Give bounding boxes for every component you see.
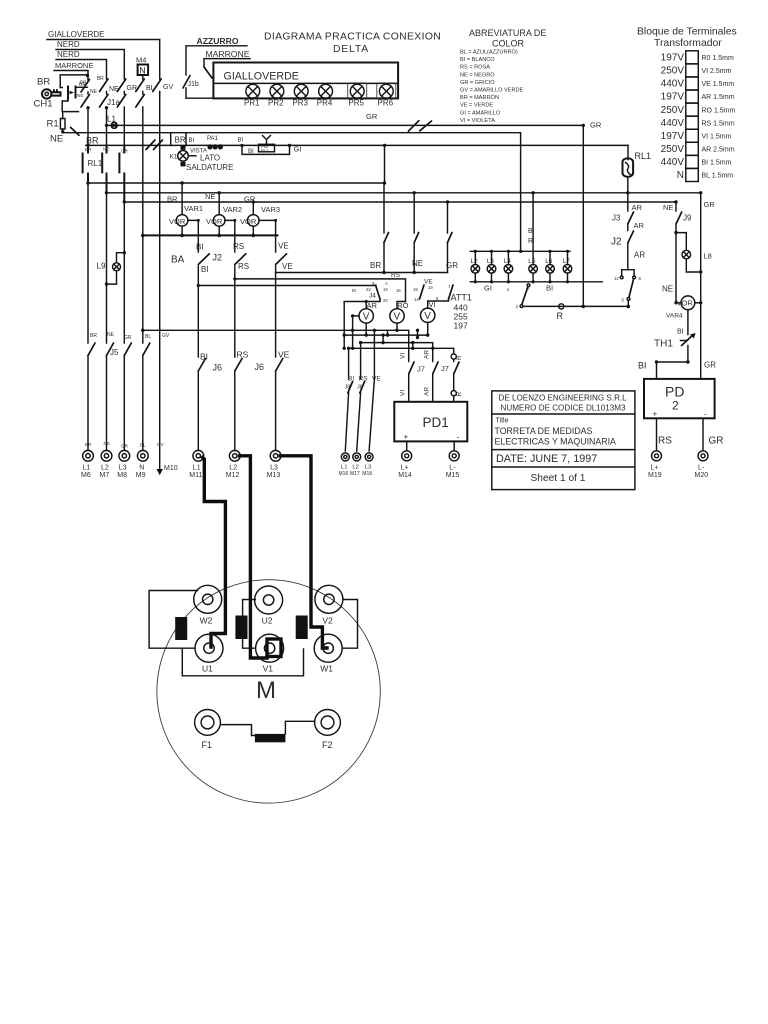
lamp L3: [487, 251, 496, 281]
node NE label under R1: [50, 134, 63, 145]
svg-text:ATT1: ATT1: [451, 293, 472, 303]
svg-text:Sheet 1 of 1: Sheet 1 of 1: [531, 473, 586, 484]
motor terminal V2: [315, 585, 343, 625]
terminal F2: [315, 710, 341, 751]
svg-text:L3: L3: [365, 465, 371, 471]
terminal M7: [100, 450, 112, 479]
wire link row VE lower with label: [197, 279, 434, 288]
svg-text:L2: L2: [352, 465, 358, 471]
label M motor: [256, 677, 276, 704]
svg-text:BI: BI: [546, 284, 553, 293]
svg-text:BR: BR: [167, 195, 178, 204]
switch J6 BI: [198, 352, 222, 451]
svg-text:AR: AR: [634, 221, 645, 230]
wire MARRONE 2: [204, 59, 250, 78]
svg-text:BI 1.5mm: BI 1.5mm: [702, 160, 732, 167]
svg-text:RL1: RL1: [635, 151, 652, 161]
svg-text:GR: GR: [704, 200, 716, 209]
motor terminal W1: [314, 634, 342, 673]
link wire left box: [149, 591, 197, 649]
svg-text:NE: NE: [50, 134, 63, 145]
svg-text:BA: BA: [171, 255, 185, 266]
terminal M20: [695, 451, 709, 479]
svg-text:VAR2: VAR2: [223, 205, 242, 214]
svg-text:SALDATURE: SALDATURE: [186, 163, 233, 172]
svg-text:L2: L2: [229, 465, 237, 472]
link bar U2-V1: [235, 616, 247, 640]
voltmeter U3 VI: [421, 300, 436, 335]
link wire mid box: [243, 600, 256, 649]
svg-text:NE: NE: [662, 285, 673, 294]
wire GV column down: [159, 92, 161, 330]
svg-text:VAR4: VAR4: [666, 313, 683, 320]
svg-text:BI: BI: [196, 243, 204, 252]
svg-text:NERD: NERD: [57, 40, 80, 49]
svg-text:14: 14: [414, 297, 419, 302]
svg-text:M4: M4: [136, 56, 146, 65]
svg-text:N: N: [677, 170, 684, 181]
svg-text:GR: GR: [590, 121, 602, 130]
svg-text:RO 1.5mm: RO 1.5mm: [702, 107, 736, 114]
svg-text:VI: VI: [400, 390, 407, 396]
bus BR at y183: [86, 145, 386, 184]
wire VE J8 column: [373, 330, 375, 379]
svg-text:19: 19: [413, 287, 418, 292]
svg-text:PR3: PR3: [292, 99, 308, 108]
legend ABREVIATURA DE COLOR: [460, 28, 546, 124]
svg-text:M19: M19: [648, 472, 662, 479]
svg-text:F1: F1: [202, 740, 213, 750]
switch J6 VE: [276, 350, 290, 451]
switch J7 VI: [400, 353, 425, 402]
svg-text:PD1: PD1: [423, 415, 449, 430]
svg-text:V: V: [394, 312, 401, 323]
svg-text:GV: GV: [162, 333, 170, 339]
svg-text:440V: 440V: [661, 157, 685, 168]
switch J9: [663, 202, 692, 303]
labels above terminals M6-M10: [85, 441, 165, 449]
svg-text:RS: RS: [359, 376, 369, 383]
svg-text:BI = BLANCO: BI = BLANCO: [460, 57, 495, 63]
relay coil contacts left of BR column: [60, 74, 89, 112]
svg-text:PR2: PR2: [268, 99, 284, 108]
wire meter left branch: [344, 300, 368, 348]
terminal M17: [350, 453, 361, 477]
terminal block wire labels: [702, 55, 736, 180]
svg-text:J6: J6: [255, 362, 265, 372]
label ATT1: [451, 293, 472, 331]
switch J4 selector pins: [352, 281, 451, 303]
svg-text:BR: BR: [370, 261, 381, 270]
svg-text:250V: 250V: [661, 144, 685, 155]
wire mesh line 4: [347, 347, 454, 379]
svg-text:GR: GR: [366, 112, 378, 121]
svg-text:J7: J7: [417, 365, 425, 374]
wire columns J5 to terminals: [88, 330, 160, 462]
wire BR third bus to RL1 fuse: [86, 144, 628, 160]
lamp L7: [563, 251, 572, 281]
svg-text:K1: K1: [170, 154, 178, 161]
svg-text:197: 197: [454, 321, 468, 331]
svg-text:BL = AZUL(AZZURRO): BL = AZUL(AZZURRO): [460, 50, 518, 56]
svg-text:NE = NEGRO: NE = NEGRO: [460, 72, 495, 78]
svg-text:GV = AMARILLO VERDE: GV = AMARILLO VERDE: [460, 88, 524, 94]
wire BR second bus to lamp feed: [63, 133, 521, 252]
bus labels BR NE GR: [167, 192, 256, 204]
svg-text:VI = VIOLETA: VI = VIOLETA: [460, 118, 495, 124]
svg-text:TORRETA DE MEDIDAS: TORRETA DE MEDIDAS: [495, 426, 593, 436]
wire AZZURRO: [186, 46, 247, 75]
switch J1b: [183, 76, 213, 99]
terminal block cells: [686, 51, 699, 182]
terminal M8: [117, 450, 129, 479]
node GIALLOVERDE feed label: [48, 30, 104, 39]
wire mesh stubs: [343, 314, 420, 350]
svg-text:GR: GR: [709, 436, 724, 447]
terminal F1: [195, 710, 221, 751]
svg-text:M15: M15: [446, 472, 460, 479]
motor terminal W2: [194, 585, 222, 625]
svg-text:GV: GV: [157, 442, 165, 447]
switch meter VI: [428, 285, 453, 308]
svg-text:NE: NE: [205, 192, 215, 201]
svg-text:W2: W2: [200, 616, 213, 626]
svg-text:U2: U2: [262, 616, 273, 626]
svg-text:L3: L3: [119, 465, 127, 472]
svg-text:BR: BR: [37, 77, 50, 88]
svg-text:VI 1.5mm: VI 1.5mm: [702, 133, 732, 140]
table Bloque de Terminales Transformador: [637, 27, 737, 50]
wire NERD2 to NE column: [56, 60, 107, 80]
labels BI RS VE J8: [345, 376, 382, 391]
svg-text:PR1: PR1: [244, 99, 260, 108]
svg-text:BR: BR: [85, 442, 92, 447]
lamp L5: [528, 251, 537, 281]
switch J2 pole RS: [213, 242, 250, 357]
svg-text:VE = VERDE: VE = VERDE: [460, 103, 493, 109]
svg-text:DELTA: DELTA: [333, 44, 369, 55]
svg-text:NE: NE: [663, 203, 673, 212]
thermistor TH1: [654, 310, 696, 362]
svg-text:20: 20: [383, 298, 388, 303]
fuse PR5: [350, 84, 364, 98]
svg-text:250V: 250V: [661, 66, 685, 77]
svg-text:L1: L1: [193, 465, 201, 472]
switch GR column row1: [117, 79, 126, 94]
link wire bottom loop: [182, 649, 303, 676]
terminal M18: [362, 453, 373, 477]
svg-text:GR: GR: [704, 361, 716, 370]
svg-text:19: 19: [383, 287, 388, 292]
svg-text:AR 2.5mm: AR 2.5mm: [702, 147, 735, 154]
fuse PR2: [270, 84, 284, 98]
switch trio BR: [370, 183, 389, 273]
svg-text:16: 16: [396, 288, 401, 293]
svg-text:VE: VE: [278, 350, 290, 360]
fuse PR3: [294, 84, 308, 98]
svg-text:VOR: VOR: [677, 299, 694, 308]
voltmeter U2 RO: [390, 301, 409, 330]
svg-text:M17: M17: [350, 471, 360, 477]
svg-text:NE: NE: [104, 441, 110, 446]
terminal block voltage labels: [661, 53, 685, 182]
wire mesh line 2: [343, 333, 430, 336]
svg-text:Transformador: Transformador: [654, 38, 722, 49]
node NERD label 2: [57, 50, 80, 59]
switch J2 pole BI: [171, 243, 209, 358]
lamp K1 welding view: [170, 145, 234, 172]
svg-text:R: R: [456, 392, 463, 397]
svg-text:-: -: [457, 433, 460, 442]
wire mesh line 3: [359, 341, 433, 379]
switch trio NE: [412, 193, 423, 273]
varistor VAR2: [206, 193, 242, 252]
voltmeter U1 AR: [359, 301, 378, 335]
splice beads PA1: [207, 136, 223, 149]
node GR right label: [704, 200, 716, 209]
svg-text:AR: AR: [632, 203, 643, 212]
svg-text:GIALLOVERDE: GIALLOVERDE: [224, 71, 299, 83]
svg-text:AR: AR: [424, 387, 431, 396]
switch GV column row1: [153, 79, 162, 94]
svg-text:M10: M10: [164, 465, 178, 472]
svg-text:440V: 440V: [661, 79, 685, 90]
svg-text:PA1: PA1: [207, 136, 219, 142]
wire B R drop labels: [528, 191, 535, 251]
svg-text:VAR3: VAR3: [261, 205, 280, 214]
switch group J5: [88, 332, 170, 357]
svg-text:NE: NE: [77, 93, 83, 98]
bus GR at y202: [123, 200, 678, 203]
bus lamp bottom GI: [470, 280, 602, 292]
svg-text:COLOR: COLOR: [492, 39, 525, 49]
svg-text:PR4: PR4: [317, 99, 333, 108]
wire GR main top from L1 to right drop: [107, 112, 602, 306]
svg-text:BI: BI: [189, 138, 195, 144]
svg-text:22: 22: [366, 287, 371, 292]
svg-text:GIALLOVERDE: GIALLOVERDE: [48, 30, 104, 39]
svg-text:AR: AR: [634, 251, 645, 260]
varistor VAR1: [169, 183, 203, 252]
fuse PR1: [246, 84, 260, 98]
svg-text:J7: J7: [441, 364, 449, 373]
link bar W2-U1: [175, 617, 187, 640]
svg-text:RS: RS: [658, 436, 672, 447]
lamp L2: [471, 251, 480, 281]
svg-text:W1: W1: [320, 664, 333, 674]
title DIAGRAMA PRACTICA CONEXION DELTA: [264, 32, 441, 56]
svg-text:AR 1.5mm: AR 1.5mm: [702, 94, 735, 101]
svg-text:L2: L2: [101, 465, 109, 472]
svg-text:NE: NE: [90, 89, 98, 95]
svg-text:GI: GI: [484, 284, 492, 293]
wire J8 VE to M18: [369, 379, 374, 451]
fuse holder gray box PR6: [377, 83, 396, 99]
motor terminal U2: [255, 586, 283, 626]
terminal M6: [81, 450, 93, 479]
fuse RL1 oval: [623, 151, 652, 193]
svg-text:M18: M18: [362, 471, 372, 477]
svg-text:R: R: [528, 238, 533, 245]
svg-text:L-: L-: [698, 465, 705, 472]
svg-text:AZZURRO: AZZURRO: [197, 36, 239, 46]
svg-text:12: 12: [614, 276, 619, 281]
wire BR NE GR columns to J5: [88, 183, 143, 343]
svg-text:BR: BR: [86, 136, 99, 146]
wire NE column down: [105, 106, 108, 151]
svg-text:VE: VE: [282, 262, 293, 271]
wire BL column down: [142, 107, 144, 330]
switch row 1 labels NE GR BL GV: [79, 76, 173, 95]
link bar V2-W1: [296, 616, 308, 640]
svg-text:+: +: [653, 410, 658, 419]
svg-text:M12: M12: [226, 472, 240, 479]
title block: [492, 391, 635, 490]
svg-text:GR = GRICIO: GR = GRICIO: [460, 80, 495, 86]
svg-text:M14: M14: [398, 472, 412, 479]
svg-text:Bloque de Terminales: Bloque de Terminales: [637, 27, 737, 38]
switch meter RO: [397, 285, 424, 309]
svg-text:L9: L9: [97, 262, 106, 271]
ground arrow M10: [157, 462, 178, 475]
switch on NE wire from R1: [71, 127, 79, 135]
svg-text:197V: 197V: [661, 92, 685, 103]
svg-text:J3: J3: [612, 214, 621, 223]
svg-text:R1: R1: [47, 119, 59, 130]
switch group J1a row2: [81, 95, 144, 108]
svg-text:MARRONE: MARRONE: [55, 61, 93, 70]
switch BL column row1 under M4: [136, 79, 145, 94]
svg-text:M8: M8: [117, 472, 127, 479]
svg-text:RS: RS: [238, 262, 249, 271]
lamp L6: [545, 251, 554, 281]
switch J2 right: [611, 224, 634, 248]
node AZZURRO label: [197, 36, 239, 46]
svg-text:440V: 440V: [661, 118, 685, 129]
svg-text:RL1: RL1: [88, 159, 103, 168]
svg-text:BI: BI: [638, 361, 647, 371]
svg-text:J9: J9: [683, 214, 692, 223]
svg-text:RL1: RL1: [261, 148, 269, 153]
cable M11 to U1: [203, 458, 226, 648]
svg-text:M9: M9: [136, 472, 146, 479]
switch trio GR: [446, 202, 458, 273]
box GIALLOVERDE fuse row: [213, 63, 398, 99]
fuse PR4: [319, 84, 333, 98]
svg-text:NUMERO DE CODICE DL1013M3: NUMERO DE CODICE DL1013M3: [501, 404, 627, 413]
wire GIALLOVERDE to GV column: [47, 40, 160, 80]
wire BR column down: [86, 106, 89, 151]
svg-text:L+: L+: [651, 465, 659, 472]
svg-text:RS 1.5mm: RS 1.5mm: [702, 120, 735, 127]
labels PR1-PR6: [244, 99, 394, 108]
svg-text:DATE: JUNE 7, 1997: DATE: JUNE 7, 1997: [496, 453, 597, 465]
svg-text:J4: J4: [369, 293, 376, 300]
wire mesh line 1 from BL column: [141, 329, 409, 357]
svg-text:-: -: [704, 410, 707, 419]
svg-text:DE LOENZO ENGINEERING S.R.L: DE LOENZO ENGINEERING S.R.L: [499, 394, 628, 403]
svg-text:CH1: CH1: [34, 99, 53, 110]
bus NE at y192.8: [105, 191, 703, 194]
svg-text:M7: M7: [100, 472, 110, 479]
svg-text:RS = ROSA: RS = ROSA: [460, 65, 490, 71]
resistor R1: [47, 112, 66, 134]
box BR saldature label: [171, 133, 186, 146]
svg-text:BI: BI: [238, 138, 244, 144]
svg-text:L+: L+: [401, 465, 409, 472]
bus lamp top: [470, 250, 570, 253]
svg-text:J5: J5: [110, 348, 119, 357]
field resistor between F1 F2: [221, 721, 315, 742]
svg-text:L-: L-: [449, 465, 456, 472]
svg-text:RS: RS: [233, 242, 244, 251]
switch J8 BI: [345, 382, 352, 452]
svg-text:BR = MARRÓN: BR = MARRÓN: [460, 94, 499, 101]
svg-text:ELECTRICAS Y MAQUINARIA: ELECTRICAS Y MAQUINARIA: [495, 437, 617, 447]
link wire right box: [342, 600, 357, 649]
svg-text:197V: 197V: [661, 53, 685, 64]
wire MARRONE to BR column: [54, 71, 88, 80]
svg-text:M13: M13: [267, 472, 281, 479]
lamp L1: [107, 115, 117, 129]
node NE label right: [662, 285, 673, 294]
node NERD label 1: [57, 40, 80, 49]
svg-text:M11: M11: [189, 472, 202, 479]
svg-text:PD: PD: [665, 384, 684, 400]
svg-text:R: R: [456, 355, 463, 360]
svg-text:J1b: J1b: [188, 81, 199, 88]
svg-text:MARRONE: MARRONE: [206, 49, 250, 59]
motor body circle: [157, 580, 380, 803]
lamp L4: [504, 251, 513, 281]
svg-text:197V: 197V: [661, 131, 685, 142]
svg-text:TH1: TH1: [654, 339, 673, 350]
resistor R wire: [523, 304, 630, 321]
svg-text:19: 19: [428, 285, 433, 290]
junction slash marks on GR wire: [408, 121, 431, 132]
svg-text:PR5: PR5: [348, 99, 364, 108]
varistor VAR3: [240, 202, 280, 252]
svg-text:BI: BI: [248, 149, 254, 155]
switch J4: [366, 285, 380, 309]
switch J2 pole VE: [276, 242, 293, 358]
svg-text:BR: BR: [175, 136, 186, 145]
svg-text:GR: GR: [121, 444, 129, 449]
svg-text:PR6: PR6: [378, 99, 394, 108]
svg-text:R0 1.5mm: R0 1.5mm: [702, 55, 734, 62]
terminal M19: [648, 451, 662, 479]
svg-text:VAR1: VAR1: [184, 204, 203, 213]
wire link row VE-GR: [276, 271, 448, 274]
svg-text:M6: M6: [81, 472, 91, 479]
node GI label: [294, 145, 302, 154]
switch selector J2 AR: [614, 243, 645, 306]
terminal M15: [446, 451, 460, 479]
svg-text:V2: V2: [322, 616, 333, 626]
svg-text:ABREVIATURA DE: ABREVIATURA DE: [469, 28, 546, 38]
terminal M14: [398, 451, 412, 479]
node BR label: [86, 136, 99, 146]
svg-text:GV: GV: [163, 84, 173, 91]
svg-text:L1: L1: [341, 465, 347, 471]
svg-text:BL: BL: [140, 443, 146, 448]
svg-text:BL: BL: [145, 334, 151, 340]
terminal M13: [267, 450, 281, 479]
terminal M11: [189, 450, 203, 479]
varistor VAR4 VOR: [666, 296, 702, 320]
svg-text:NE: NE: [107, 332, 115, 338]
motor terminal U1: [195, 634, 223, 673]
